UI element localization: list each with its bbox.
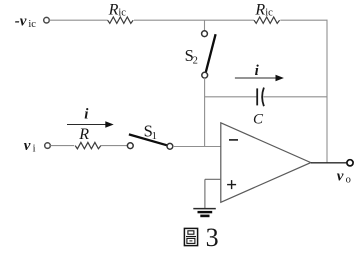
svg-text:1: 1 bbox=[152, 131, 157, 142]
switch S1 left contact bbox=[127, 143, 133, 149]
wire cap right bbox=[263, 96, 327, 98]
wire non-inverting input bbox=[205, 178, 221, 180]
switch S2 top contact bbox=[202, 31, 208, 37]
svg-text:C: C bbox=[253, 111, 264, 127]
caption glyph 圖 (drawn) bbox=[184, 228, 197, 245]
switch S2 blade bbox=[206, 34, 216, 72]
svg-text:2: 2 bbox=[193, 55, 198, 66]
current arrow i (input) bbox=[67, 124, 109, 126]
resistor R_ic (left) bbox=[108, 17, 134, 23]
wire R to S1 bbox=[101, 145, 128, 147]
op-amp U1 bbox=[221, 123, 311, 203]
wire vi to R bbox=[50, 145, 74, 147]
op-amp plus sign bbox=[227, 184, 236, 186]
wire top: R_ic2 to corner bbox=[280, 19, 327, 21]
switch S2 bottom contact bbox=[202, 72, 208, 78]
wire op-amp output bbox=[311, 162, 347, 164]
svg-text:ic: ic bbox=[265, 8, 273, 19]
svg-text:3: 3 bbox=[206, 223, 219, 252]
svg-text:ic: ic bbox=[118, 8, 126, 19]
svg-text:i: i bbox=[255, 63, 260, 79]
wire right vertical down to output node bbox=[326, 20, 328, 163]
op-amp minus sign bbox=[229, 139, 238, 141]
svg-text:i: i bbox=[84, 107, 89, 123]
svg-text:R: R bbox=[254, 1, 265, 18]
wire top: terminal to R_ic1 bbox=[49, 19, 107, 21]
switch S1 right contact bbox=[167, 143, 173, 149]
wire cap left bbox=[205, 96, 257, 98]
wire down to ground bbox=[204, 179, 206, 208]
resistor R bbox=[75, 142, 101, 148]
svg-text:o: o bbox=[346, 175, 351, 186]
resistor R_ic (right) bbox=[254, 17, 280, 23]
wire top: R_ic1 to R_ic2 bbox=[134, 19, 254, 21]
wire S1 to op-amp inverting input bbox=[173, 146, 221, 148]
wire from S2 down to inverting node bbox=[204, 78, 206, 146]
node vo output terminal bbox=[347, 160, 353, 166]
svg-text:v: v bbox=[337, 169, 344, 185]
svg-text:R: R bbox=[78, 126, 89, 143]
svg-text:ic: ic bbox=[28, 19, 36, 30]
current arrow i (capacitor branch) bbox=[235, 77, 280, 79]
svg-text:-v: -v bbox=[15, 13, 27, 29]
node vi input terminal bbox=[45, 143, 51, 149]
svg-text:v: v bbox=[24, 138, 31, 154]
capacitor C plates bbox=[256, 88, 258, 105]
node -vic input terminal bbox=[44, 17, 50, 23]
svg-text:i: i bbox=[33, 144, 36, 155]
ground bbox=[193, 208, 216, 210]
switch S1 blade bbox=[129, 134, 167, 145]
svg-text:R: R bbox=[108, 1, 119, 18]
wire stub to S2 top bbox=[204, 20, 206, 31]
